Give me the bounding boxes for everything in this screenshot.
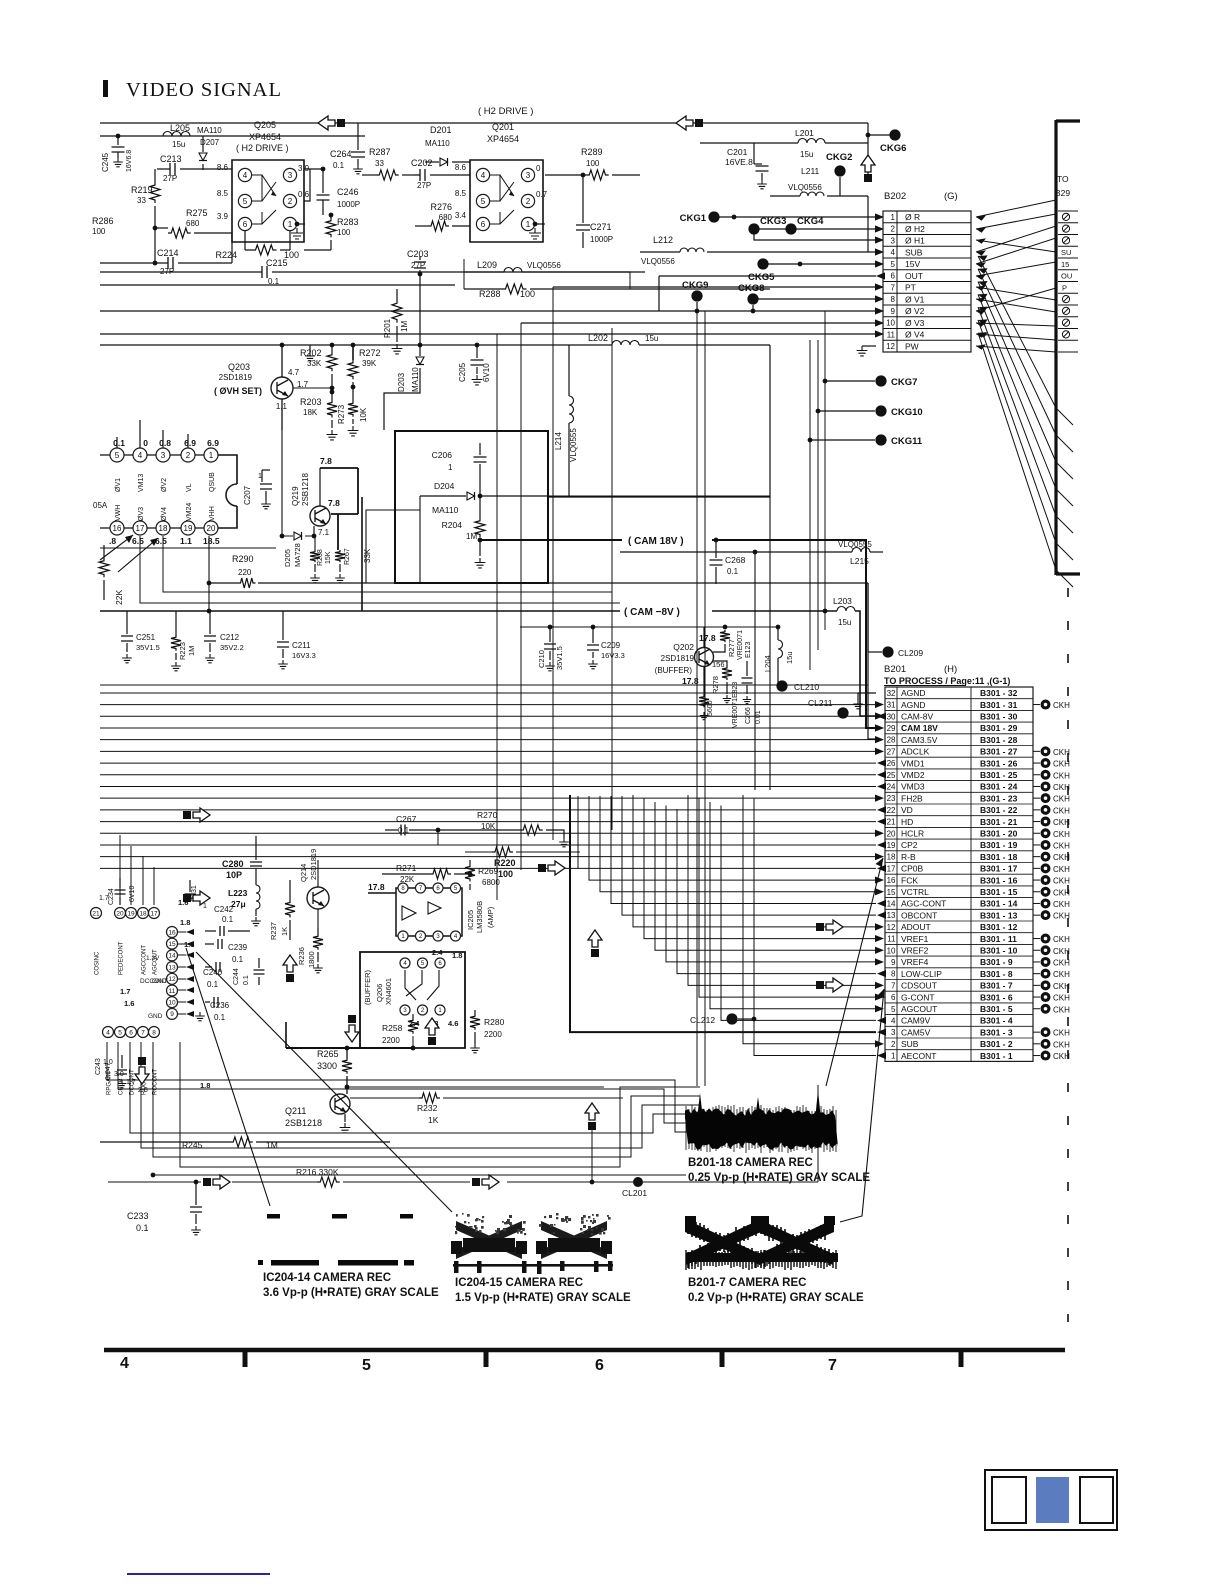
svg-text:CKH: CKH (1053, 830, 1070, 839)
svg-text:( ØVH SET): ( ØVH SET) (214, 386, 262, 396)
svg-text:R201: R201 (383, 318, 392, 338)
capacitor C213 (157, 168, 232, 170)
vertical feeds from B202 region (552, 287, 554, 840)
B201 row 16 entry (1033, 879, 1040, 881)
resistor R288 (464, 288, 502, 290)
svg-text:R204: R204 (442, 520, 463, 530)
svg-text:B301 - 23: B301 - 23 (980, 793, 1018, 803)
svg-text:CAM3.5V: CAM3.5V (901, 735, 938, 745)
svg-text:C264: C264 (330, 149, 352, 159)
svg-text:ADOUT: ADOUT (901, 922, 931, 932)
capacitor C205 (476, 345, 478, 358)
svg-text:1: 1 (891, 213, 896, 222)
svg-text:0.1: 0.1 (207, 980, 219, 989)
svg-text:PEDECONT: PEDECONT (119, 941, 125, 975)
svg-text:1.6: 1.6 (124, 999, 134, 1008)
connector B202 table (883, 211, 971, 352)
svg-text:2200: 2200 (484, 1030, 502, 1039)
callout line to B201-7 row (840, 989, 884, 1222)
svg-text:AGCOUT: AGCOUT (901, 1004, 937, 1014)
svg-text:1M: 1M (466, 532, 477, 541)
svg-text:31: 31 (887, 701, 896, 710)
svg-text:D204: D204 (434, 481, 455, 491)
svg-text:7.1: 7.1 (318, 528, 330, 537)
off-page connector right of R220 (538, 864, 546, 872)
svg-text:16V3.3: 16V3.3 (601, 651, 625, 660)
svg-text:B301 - 12: B301 - 12 (980, 922, 1018, 932)
svg-text:C271: C271 (590, 222, 612, 232)
svg-text:0.6: 0.6 (298, 190, 310, 199)
inductor L211 (770, 177, 840, 196)
wire CAM -8V (100, 610, 620, 612)
resistor R273 (352, 387, 354, 401)
svg-text:8: 8 (891, 970, 896, 979)
svg-text:22: 22 (887, 806, 896, 815)
svg-text:DCCONT: DCCONT (140, 978, 168, 985)
svg-text:AGND: AGND (901, 688, 926, 698)
svg-text:FCK: FCK (901, 875, 918, 885)
svg-text:20: 20 (207, 524, 216, 533)
svg-text:CKG10: CKG10 (891, 407, 923, 418)
wire B202 pin6 out (876, 272, 885, 279)
waveform IC204-15 baseline (453, 1264, 613, 1267)
svg-text:33: 33 (137, 196, 146, 205)
svg-text:5: 5 (118, 1029, 122, 1036)
svg-text:R268: R268 (317, 549, 324, 566)
Q201 internal transistors (490, 175, 514, 201)
svg-text:Q206: Q206 (375, 984, 384, 1002)
svg-text:( CAM 18V ): ( CAM 18V ) (628, 536, 684, 547)
svg-text:24: 24 (887, 782, 896, 791)
diode D205 (282, 430, 293, 536)
svg-text:L211: L211 (801, 166, 820, 176)
svg-text:B301 - 19: B301 - 19 (980, 840, 1018, 850)
svg-text:15u: 15u (645, 334, 658, 343)
svg-text:COSINC: COSINC (95, 951, 101, 975)
svg-text:18: 18 (139, 910, 147, 917)
svg-text:17.8: 17.8 (368, 882, 385, 892)
svg-text:MA110: MA110 (197, 126, 222, 135)
svg-text:AGC-CONT: AGC-CONT (901, 899, 946, 909)
wire Q201 pin1 ground (535, 223, 545, 225)
svg-text:L205: L205 (170, 123, 190, 133)
svg-text:6.9: 6.9 (207, 438, 219, 448)
ground at B202 pin12 (862, 345, 876, 347)
svg-text:MA110: MA110 (411, 367, 420, 392)
B201 row 20 entry (1033, 832, 1040, 834)
svg-text:CKH: CKH (1053, 841, 1070, 850)
svg-text:21: 21 (92, 910, 100, 917)
svg-text:18: 18 (159, 524, 168, 533)
svg-text:6: 6 (243, 220, 248, 229)
svg-text:C266: C266 (745, 707, 752, 724)
svg-text:B301 - 1: B301 - 1 (980, 1051, 1013, 1061)
off-page connector row7 (816, 981, 824, 989)
svg-text:(BUFFER): (BUFFER) (655, 666, 693, 675)
IC204 output wires bottom edges (107, 1042, 700, 1132)
wire D204 line to right (548, 495, 770, 497)
ground at B201 row 31 32 (858, 693, 876, 700)
callout line to B201-18 row (826, 858, 883, 1086)
svg-text:ROCONT: ROCONT (153, 1069, 159, 1095)
svg-text:B301 - 9: B301 - 9 (980, 957, 1013, 967)
B201 row 27 entry (1033, 750, 1040, 752)
svg-text:Q205: Q205 (254, 120, 276, 130)
svg-text:SUB: SUB (901, 1039, 919, 1049)
wire x592 down to CL201 rail (591, 1130, 593, 1182)
fan wires B202 to edge connector (976, 200, 1056, 217)
wire to B202 pin9 (long rail) (875, 307, 884, 314)
svg-text:R276: R276 (430, 202, 452, 212)
svg-text:0.8: 0.8 (159, 438, 171, 448)
svg-text:16: 16 (113, 524, 122, 533)
svg-text:0.2 Vp-p (H•RATE) GRAY SCALE: 0.2 Vp-p (H•RATE) GRAY SCALE (688, 1292, 864, 1304)
wire long rail y334 (100, 333, 876, 335)
svg-text:CKG6: CKG6 (880, 143, 906, 154)
wire C203 down to D203 (419, 274, 421, 356)
svg-text:R267: R267 (344, 548, 351, 565)
svg-text:32: 32 (887, 689, 896, 698)
svg-text:P: P (1062, 283, 1067, 292)
resistor R204 (479, 496, 481, 518)
svg-text:680: 680 (439, 213, 453, 222)
svg-text:CAM-8V: CAM-8V (901, 711, 933, 721)
svg-text:1.3V: 1.3V (146, 955, 160, 962)
inductor L203 (837, 607, 855, 611)
svg-text:R265: R265 (317, 1049, 339, 1059)
svg-text:15K: 15K (325, 551, 332, 564)
svg-text:16: 16 (887, 876, 896, 885)
B201 row 2 entry (1033, 1043, 1040, 1045)
svg-text:1: 1 (526, 220, 531, 229)
svg-text:27P: 27P (417, 181, 431, 190)
svg-text:B301 - 5: B301 - 5 (980, 1004, 1013, 1014)
svg-text:OUT: OUT (905, 271, 923, 281)
svg-text:15u: 15u (800, 150, 813, 159)
svg-text:CDSOUT: CDSOUT (901, 981, 937, 991)
svg-text:17: 17 (136, 524, 145, 533)
svg-text:XP4654: XP4654 (249, 132, 281, 142)
svg-text:VREF1: VREF1 (901, 934, 929, 944)
svg-text:C246: C246 (337, 187, 359, 197)
capacitor C202 (414, 174, 470, 176)
svg-text:15u: 15u (838, 618, 851, 627)
svg-text:L201: L201 (795, 128, 814, 138)
svg-text:C212: C212 (220, 633, 240, 642)
svg-text:CKG4: CKG4 (797, 216, 824, 227)
svg-text:3.4: 3.4 (455, 211, 467, 220)
svg-text:LOW-CLIP: LOW-CLIP (901, 969, 942, 979)
svg-text:5: 5 (362, 1357, 371, 1374)
Q205 internal transistors (252, 175, 276, 201)
svg-text:B201: B201 (884, 664, 906, 675)
svg-text:17: 17 (150, 910, 158, 917)
svg-text:ADCLK: ADCLK (901, 747, 930, 757)
svg-text:B301 - 29: B301 - 29 (980, 723, 1018, 733)
resistor R290 on wire (208, 536, 210, 611)
capacitor C209 (592, 627, 594, 643)
off-page connector down left (138, 1057, 146, 1065)
resistor R279 (699, 695, 709, 707)
svg-text:B201-18 CAMERA REC: B201-18 CAMERA REC (688, 1157, 813, 1169)
svg-text:1: 1 (203, 903, 207, 910)
opamp IC205 block (396, 888, 462, 936)
IC204 pins top row (91, 908, 102, 919)
IC204A body right with C207 notch (218, 455, 237, 528)
svg-text:Q202: Q202 (673, 642, 694, 652)
svg-text:100: 100 (92, 227, 106, 236)
svg-text:VM13: VM13 (138, 474, 145, 492)
svg-text:7: 7 (891, 981, 896, 990)
svg-text:OBCONT: OBCONT (901, 910, 937, 920)
thick CAM5V wire to row 3 (570, 795, 876, 1032)
svg-text:Q201: Q201 (492, 122, 514, 132)
connector B201 table (885, 687, 1033, 1061)
svg-text:CL210: CL210 (794, 682, 819, 692)
svg-text:10: 10 (168, 1000, 176, 1007)
svg-text:C201: C201 (727, 147, 748, 157)
svg-text:( H2 DRIVE ): ( H2 DRIVE ) (236, 143, 289, 153)
svg-text:R236: R236 (297, 947, 306, 965)
svg-text:CKH: CKH (1053, 806, 1070, 815)
svg-text:9: 9 (891, 958, 896, 967)
svg-text:33: 33 (375, 159, 384, 168)
svg-text:3: 3 (891, 236, 896, 245)
svg-text:CKG1: CKG1 (680, 213, 707, 224)
svg-text:0.25 Vp-p (H•RATE) GRAY SCALE: 0.25 Vp-p (H•RATE) GRAY SCALE (688, 1172, 870, 1184)
svg-text:10: 10 (887, 946, 896, 955)
svg-text:L203: L203 (833, 596, 852, 606)
svg-text:IC205: IC205 (466, 910, 475, 930)
svg-text:CKH: CKH (1053, 1029, 1070, 1038)
svg-text:R203: R203 (300, 397, 322, 407)
svg-text:11: 11 (887, 935, 896, 944)
svg-text:C209: C209 (601, 641, 621, 650)
wire to B202 pin7 from vertical x553 (553, 286, 876, 288)
Q205 pin 1 (283, 217, 296, 230)
inductor L205 (163, 132, 190, 137)
svg-text:AGND: AGND (901, 700, 926, 710)
transistor Q211 (330, 1094, 350, 1114)
inductor L201 (700, 142, 798, 144)
wire y1182 with R216 CL201 (108, 1181, 201, 1183)
svg-text:C268: C268 (725, 555, 746, 565)
svg-text:3300: 3300 (317, 1061, 337, 1071)
svg-text:100: 100 (498, 869, 513, 879)
staircase verticals rows 17-21 (577, 796, 579, 868)
svg-text:C213: C213 (160, 154, 182, 164)
svg-text:B301 - 16: B301 - 16 (980, 875, 1018, 885)
svg-text:R275: R275 (186, 208, 208, 218)
svg-text:B301 - 30: B301 - 30 (980, 711, 1018, 721)
IC204A pin 16 (110, 521, 124, 535)
svg-text:27: 27 (887, 747, 896, 756)
resistor R224 (245, 231, 290, 250)
svg-text:L212: L212 (653, 235, 673, 245)
ruler ticks (243, 1352, 248, 1367)
svg-text:CKG3: CKG3 (760, 216, 786, 227)
svg-text:CKH: CKH (1053, 1005, 1070, 1014)
svg-text:27μ: 27μ (231, 899, 246, 909)
svg-text:B301 - 24: B301 - 24 (980, 782, 1018, 792)
svg-text:(BUFFER): (BUFFER) (363, 970, 372, 1005)
wire Q205 pin1 to ground (297, 223, 305, 225)
svg-text:B301 - 15: B301 - 15 (980, 887, 1018, 897)
transistor Q219 (310, 506, 330, 526)
svg-text:5: 5 (891, 260, 896, 269)
svg-text:C245: C245 (101, 152, 110, 172)
inductor L212 wire to B202 pin4 (640, 251, 680, 253)
capacitor C214 (100, 233, 232, 263)
Q201 pin 5 (476, 194, 489, 207)
svg-text:16V6.8: 16V6.8 (126, 150, 133, 172)
svg-text:8: 8 (891, 295, 896, 304)
svg-text:CKG11: CKG11 (891, 436, 923, 447)
svg-text:1.8: 1.8 (180, 918, 190, 927)
svg-text:R245: R245 (182, 1140, 203, 1150)
transistor Q202 (695, 648, 714, 667)
svg-text:1.7: 1.7 (126, 1079, 136, 1086)
capacitor C215 on long wire (100, 271, 645, 273)
svg-text:8: 8 (152, 1029, 156, 1036)
svg-text:(AMP): (AMP) (486, 906, 495, 928)
B201 row 5 entry (1033, 1008, 1040, 1010)
capacitor C246 (322, 169, 324, 193)
svg-text:R290: R290 (232, 554, 254, 564)
test point CKG5 wire to B202 pin5 (763, 263, 876, 265)
svg-text:0.1: 0.1 (136, 1223, 149, 1233)
svg-text:MA110: MA110 (425, 139, 450, 148)
test point CL210 (776, 680, 787, 691)
svg-text:1: 1 (288, 220, 293, 229)
inner box corner (366, 496, 420, 583)
inductor L215 VLQ0555 (620, 551, 852, 553)
svg-text:6.5: 6.5 (155, 536, 167, 546)
svg-text:XP4654: XP4654 (487, 134, 519, 144)
svg-text:HCLR: HCLR (901, 828, 924, 838)
corner up right x818 (817, 1085, 819, 1182)
svg-text:15: 15 (887, 888, 896, 897)
svg-text:2: 2 (891, 225, 896, 234)
svg-text:B301 - 13: B301 - 13 (980, 910, 1018, 920)
svg-text:SUB: SUB (905, 247, 923, 257)
svg-text:R283: R283 (337, 217, 359, 227)
svg-text:R237: R237 (269, 922, 278, 940)
svg-text:R280: R280 (484, 1017, 505, 1027)
page navigation widget (985, 1470, 1117, 1530)
svg-text:VREF2: VREF2 (901, 945, 929, 955)
svg-text:7: 7 (141, 1029, 145, 1036)
resistor R236 (317, 928, 319, 934)
svg-text:CL211: CL211 (808, 698, 833, 708)
callout line to IC204-15 waveform (196, 952, 452, 1212)
IC204A pin 18 (156, 521, 170, 535)
transistor Q203 (271, 377, 293, 399)
page edge connector B291 bracket (1054, 120, 1057, 575)
svg-text:1: 1 (891, 1052, 896, 1061)
svg-text:6.5: 6.5 (132, 536, 144, 546)
resistor R223 (175, 611, 177, 635)
svg-text:23: 23 (887, 794, 896, 803)
svg-text:CKG8: CKG8 (738, 283, 764, 294)
off-page connector row12 (816, 923, 824, 931)
svg-text:1: 1 (258, 473, 262, 480)
resistor R283 (330, 215, 332, 218)
svg-text:20: 20 (116, 910, 124, 917)
svg-text:1M: 1M (400, 321, 409, 332)
svg-text:28: 28 (887, 736, 896, 745)
wire y626 to Q202 (520, 626, 778, 628)
transistor Q214 (307, 887, 329, 909)
svg-text:6: 6 (891, 993, 896, 1002)
svg-text:1K: 1K (428, 1115, 439, 1125)
B201 row 24 entry (1033, 785, 1040, 787)
svg-text:VMD3: VMD3 (901, 782, 925, 792)
svg-text:VMD2: VMD2 (901, 770, 925, 780)
svg-text:CKH: CKH (1053, 877, 1070, 886)
svg-text:10P: 10P (226, 870, 242, 880)
svg-text:R216 330K: R216 330K (296, 1167, 339, 1177)
svg-text:R232: R232 (417, 1103, 438, 1113)
svg-text:Ø V1: Ø V1 (905, 294, 925, 304)
svg-text:15: 15 (1061, 260, 1069, 269)
svg-text:0.01: 0.01 (755, 710, 762, 724)
wire rail L202 y345 (100, 344, 612, 346)
svg-text:0.7: 0.7 (536, 190, 548, 199)
svg-text:6: 6 (481, 220, 486, 229)
svg-text:CKH: CKH (1053, 865, 1070, 874)
svg-text:15u: 15u (785, 651, 794, 664)
diode D203 (418, 343, 423, 348)
svg-text:1M: 1M (187, 646, 196, 656)
svg-text:18.5: 18.5 (203, 536, 220, 546)
wire CAM 18V (480, 539, 622, 541)
svg-text:7: 7 (828, 1357, 837, 1374)
resistor R275 (155, 227, 168, 229)
wire to B202 pin11 (long rail) (875, 330, 884, 337)
capacitor C210 (549, 627, 551, 642)
svg-text:8.6: 8.6 (455, 163, 467, 172)
svg-text:VLQ0555: VLQ0555 (569, 428, 578, 462)
inductor L204 (777, 627, 779, 640)
svg-text:27P: 27P (163, 174, 177, 183)
resistor R202 (331, 345, 333, 352)
hybrid Q201 XP4654 outline (470, 160, 543, 242)
resistor R289 (545, 174, 586, 176)
svg-text:C243: C243 (95, 1058, 102, 1075)
IC204A pin 5 (110, 448, 124, 462)
svg-text:C267: C267 (396, 814, 417, 824)
svg-text:CL209: CL209 (898, 648, 923, 658)
svg-text:E123: E123 (745, 642, 752, 658)
svg-text:12: 12 (887, 923, 896, 932)
resistor R278 (713, 661, 727, 666)
svg-text:1K: 1K (280, 927, 289, 936)
Q201 pin 1 (521, 217, 534, 230)
svg-text:B301 - 20: B301 - 20 (980, 828, 1018, 838)
svg-text:B301 - 14: B301 - 14 (980, 899, 1018, 909)
svg-text:R258: R258 (382, 1023, 403, 1033)
svg-text:2.4: 2.4 (432, 948, 443, 957)
svg-text:8.5: 8.5 (455, 189, 467, 198)
svg-text:B301 - 2: B301 - 2 (980, 1039, 1013, 1049)
capacitor C271 (582, 175, 584, 223)
B201 row 31 entry (1033, 704, 1040, 706)
svg-text:(G): (G) (944, 191, 958, 202)
svg-text:B301 - 21: B301 - 21 (980, 817, 1018, 827)
svg-text:9: 9 (891, 307, 896, 316)
svg-text:1.8: 1.8 (200, 1081, 210, 1090)
